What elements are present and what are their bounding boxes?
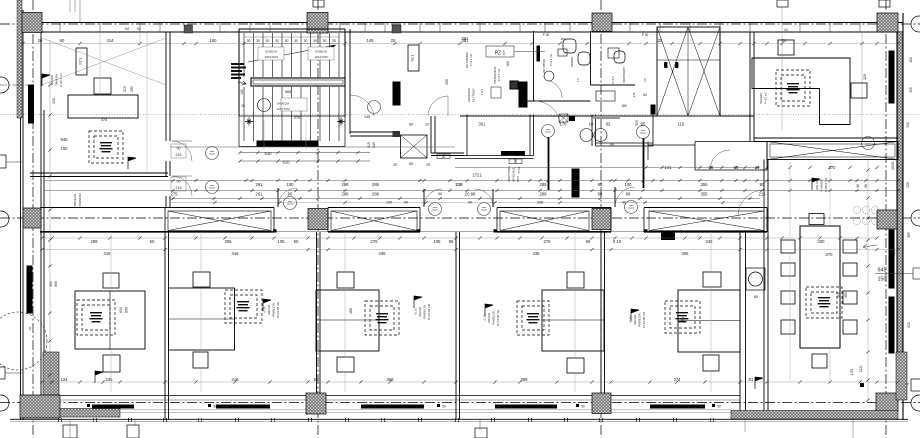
radiator window bar 4	[495, 405, 557, 409]
svg-text:220: 220	[906, 182, 910, 188]
desk office4	[542, 290, 604, 351]
svg-text:320: 320	[675, 62, 679, 68]
wc glyph block	[510, 81, 518, 89]
svg-text:96: 96	[610, 143, 614, 147]
glazed X panel 4	[649, 211, 764, 231]
grid bubble left y373 square	[0, 367, 5, 379]
svg-text:345: 345	[706, 239, 714, 244]
radiator window bar 2	[216, 405, 270, 409]
extension lines offices	[80, 8, 862, 392]
svg-text:30: 30	[323, 39, 327, 43]
svg-text:04: 04	[784, 28, 788, 32]
office wall 1|2	[165, 232, 169, 419]
svg-text:945: 945	[878, 268, 887, 274]
svg-text:100: 100	[287, 182, 295, 187]
svg-text:116: 116	[678, 122, 685, 127]
svg-text:416: 416	[232, 377, 240, 382]
room A walls	[350, 29, 464, 156]
radiator window bar 1	[92, 405, 134, 409]
svg-text:365: 365	[907, 232, 911, 238]
left room bottom wall	[30, 173, 168, 177]
top exterior wall	[18, 23, 903, 33]
wc black post 2	[651, 105, 655, 114]
glazed X panel 2	[331, 211, 417, 231]
svg-text:30: 30	[313, 39, 317, 43]
svg-text:10X17CM: 10X17CM	[314, 55, 328, 59]
svg-text:90: 90	[288, 192, 293, 197]
svg-text:P=21 m2: P=21 m2	[764, 92, 768, 104]
dashed circle grid markers	[854, 207, 879, 225]
conference chairs left	[781, 240, 795, 253]
svg-text:SANITARIAT: SANITARIAT	[622, 67, 626, 83]
svg-text:PAWILON: PAWILON	[73, 194, 77, 207]
wc toilet 3	[614, 51, 625, 63]
svg-text:419: 419	[104, 251, 112, 256]
door jamb blocks	[273, 229, 277, 232]
gray bar room3	[593, 116, 620, 119]
grid axis vertical x33	[32, 0, 34, 438]
radiator window bar 3	[361, 405, 424, 409]
svg-text:P: P	[907, 382, 909, 386]
grid axis horizontal top y24	[0, 23, 920, 25]
chair office3 top	[337, 272, 354, 288]
svg-text:60: 60	[150, 239, 155, 244]
svg-text:515: 515	[367, 142, 371, 148]
svg-text:60: 60	[598, 192, 603, 197]
bottom facade mullion line	[20, 399, 740, 401]
stair circle symbol	[258, 99, 271, 112]
left facade hatch strip	[17, 0, 22, 118]
wc circle fixture	[544, 71, 554, 81]
svg-text:100: 100	[909, 57, 913, 63]
svg-text:365: 365	[49, 281, 53, 287]
door leaf post 2	[643, 138, 645, 188]
ceiling dashed box office1	[77, 300, 115, 335]
svg-text:30: 30	[266, 39, 270, 43]
column mid left	[23, 208, 41, 228]
radiator right wall top	[889, 51, 894, 103]
svg-text:215: 215	[632, 92, 636, 97]
left room construction X lines	[42, 38, 166, 85]
bottom outer sill line	[10, 418, 908, 420]
svg-text:P=4,5: P=4,5	[611, 76, 615, 84]
void room X walls	[657, 27, 720, 116]
svg-text:URZĄD: URZĄD	[487, 312, 491, 323]
svg-text:110: 110	[858, 365, 863, 372]
bottom marker box 2	[475, 428, 487, 438]
stair landing slab	[239, 116, 345, 147]
svg-text:+5,10: +5,10	[629, 316, 633, 324]
svg-text:P=14,08 m2: P=14,08 m2	[642, 312, 646, 329]
svg-text:150: 150	[664, 62, 668, 68]
grid axis horizontal middle y218	[0, 217, 920, 219]
svg-text:610: 610	[283, 160, 291, 165]
svg-text:391: 391	[462, 36, 470, 41]
svg-text:386: 386	[387, 377, 395, 382]
svg-text:64: 64	[137, 27, 141, 31]
door gap arcs office3	[424, 189, 442, 207]
svg-text:30: 30	[285, 39, 289, 43]
svg-text:124: 124	[61, 377, 69, 382]
conference ceiling dashed box	[806, 287, 842, 318]
column top B	[307, 13, 328, 34]
door leaf post 1	[548, 137, 550, 190]
wc shaft black	[519, 82, 527, 107]
conference top glazed X wall	[767, 142, 898, 160]
svg-text:439: 439	[533, 251, 541, 256]
desk office5	[678, 290, 740, 352]
svg-text:416: 416	[232, 251, 240, 256]
column mid C	[592, 209, 611, 230]
svg-text:480: 480	[349, 308, 353, 314]
corridor room 2 walls	[592, 115, 653, 147]
svg-text:25: 25	[658, 38, 663, 43]
left room dashed ceiling box	[89, 131, 123, 163]
wc door arcs	[535, 101, 560, 124]
svg-text:141: 141	[665, 165, 673, 170]
svg-text:290: 290	[130, 86, 134, 92]
column bottom C	[592, 393, 611, 414]
left exterior wall	[21, 10, 45, 420]
terrace edge line	[20, 410, 898, 413]
svg-text:60: 60	[754, 295, 758, 299]
svg-text:WC MĘSKI: WC MĘSKI	[542, 59, 546, 73]
svg-text:276: 276	[371, 239, 379, 244]
svg-text:474: 474	[101, 118, 107, 122]
svg-text:90: 90	[586, 239, 591, 244]
radiator right wall lower	[889, 297, 894, 353]
small boxes below wall	[437, 154, 443, 159]
plant niche square	[746, 268, 765, 290]
svg-text:25: 25	[241, 104, 245, 108]
svg-text:10X17CM: 10X17CM	[276, 107, 290, 111]
svg-text:180: 180	[560, 37, 565, 41]
svg-text:365: 365	[837, 292, 841, 298]
office5 wardrobe black	[661, 231, 675, 240]
bottom marker box 1	[127, 425, 139, 438]
glazed X panel 1	[168, 211, 271, 231]
left room radiator	[29, 85, 34, 123]
right exterior wall	[897, 13, 903, 420]
corridor room1 black bench	[501, 151, 525, 156]
svg-text:30: 30	[256, 39, 260, 43]
ceiling dashed box office2	[225, 290, 262, 323]
wc cluster walls	[460, 31, 657, 116]
svg-text:TAWERN: TAWERN	[55, 74, 59, 86]
grid bubble top squares	[313, 0, 324, 7]
svg-text:PAWILON: PAWILON	[423, 305, 427, 319]
room A dark post	[393, 131, 401, 137]
svg-text:165: 165	[506, 61, 510, 67]
corner hatch bottom-left L	[20, 395, 60, 418]
corner hatch bottom-left strip	[60, 409, 120, 418]
room A NZ1 box	[408, 45, 419, 71]
svg-text:150: 150	[61, 146, 69, 151]
chair office5 top	[703, 272, 721, 287]
grid axis vertical x318	[317, 0, 319, 438]
stair arrow line	[248, 45, 336, 62]
svg-text:9X30CM: 9X30CM	[277, 102, 289, 106]
chair office1 bottom	[103, 355, 120, 372]
svg-text:30: 30	[247, 39, 251, 43]
svg-text:215: 215	[759, 192, 767, 197]
svg-text:NZ 1: NZ 1	[79, 57, 83, 64]
grid bubble right y385 square	[911, 379, 920, 391]
svg-text:289: 289	[540, 182, 548, 187]
corridor closet room	[695, 142, 767, 171]
svg-text:105: 105	[386, 201, 392, 205]
right room chair right	[851, 83, 867, 98]
svg-text:90: 90	[760, 182, 765, 187]
svg-text:03 09: 03 09	[892, 248, 896, 256]
svg-text:90: 90	[468, 201, 472, 205]
chair office1 top	[103, 273, 119, 288]
svg-text:64: 64	[125, 27, 129, 31]
bottom inner floor line	[20, 395, 740, 397]
svg-text:P=20,1 m2: P=20,1 m2	[59, 73, 63, 87]
facade post top 2	[392, 25, 401, 33]
ceiling dashed box office4	[517, 301, 549, 335]
svg-text:9X30CM: 9X30CM	[265, 50, 277, 54]
wc box	[608, 48, 619, 58]
svg-text:P=14,08 m2: P=14,08 m2	[496, 310, 500, 327]
svg-text:URZĄD: URZĄD	[267, 304, 271, 315]
svg-text:URZĄD: URZĄD	[50, 75, 54, 85]
svg-text:286: 286	[372, 182, 380, 187]
left corridor chains	[240, 153, 370, 162]
top box with X	[559, 114, 568, 122]
svg-text:270: 270	[294, 116, 300, 120]
svg-text:305: 305	[635, 120, 639, 126]
left lower wall hatch	[43, 352, 59, 396]
grid axis horizontal bottom y402.5	[0, 402, 920, 404]
svg-text:20: 20	[38, 38, 43, 43]
radiator office1 left wall	[27, 266, 32, 313]
grid bubble left y162 square	[0, 155, 6, 168]
svg-text:90: 90	[438, 192, 442, 196]
left room desk	[68, 95, 138, 118]
svg-text:P=14,08 m2: P=14,08 m2	[427, 304, 431, 321]
door gap arcs office2	[278, 188, 297, 207]
svg-text:150: 150	[878, 277, 887, 283]
wall end jambs	[165, 208, 767, 233]
threshold thin line	[274, 231, 644, 233]
svg-text:GRZEJNIK: GRZEJNIK	[467, 88, 471, 102]
left room door wall	[166, 32, 170, 208]
svg-text:288: 288	[537, 201, 543, 205]
extension line x862	[861, 32, 863, 141]
svg-text:545: 545	[372, 142, 376, 148]
corridor room 1 walls	[455, 115, 534, 159]
svg-text:+5,10: +5,10	[483, 314, 487, 322]
svg-text:306: 306	[225, 239, 233, 244]
corridor guide line 1	[170, 146, 455, 148]
svg-text:90: 90	[449, 239, 454, 244]
svg-text:10: 10	[425, 123, 429, 127]
svg-text:P 30: P 30	[543, 33, 550, 37]
svg-text:P=4,3 m2: P=4,3 m2	[549, 54, 553, 66]
svg-text:261: 261	[256, 192, 264, 197]
svg-text:25: 25	[393, 163, 397, 167]
svg-text:30: 30	[332, 39, 336, 43]
wc annex wall	[648, 142, 695, 161]
svg-text:90: 90	[626, 192, 631, 197]
svg-text:82: 82	[606, 122, 611, 127]
conference table	[800, 226, 840, 348]
wc toilet 2	[578, 52, 590, 65]
svg-text:30: 30	[304, 39, 308, 43]
wc black post 1	[537, 46, 540, 61]
svg-text:355: 355	[701, 182, 709, 187]
dim chain line mid	[455, 167, 760, 169]
office wall 2|3 grid B	[317, 232, 321, 393]
chair office4 top	[567, 272, 584, 288]
svg-text:URZĄD: URZĄD	[633, 314, 637, 325]
conference entry door arc	[738, 190, 764, 216]
svg-text:180: 180	[621, 104, 627, 108]
svg-text:90: 90	[177, 180, 181, 184]
corridor-office wall bottom thick line	[40, 231, 767, 233]
column mid B	[308, 209, 328, 230]
small black rect	[569, 116, 575, 121]
svg-text:320: 320	[818, 239, 826, 244]
right wall hatch strip	[898, 32, 903, 352]
svg-text:50: 50	[717, 405, 721, 409]
grid axis vertical x886	[885, 0, 887, 438]
svg-text:PAWILON: PAWILON	[272, 303, 276, 317]
room A door circle	[368, 101, 381, 114]
small box pair below wall	[509, 159, 515, 164]
door swing big dashed circle	[0, 312, 47, 370]
svg-text:9X30CM: 9X30CM	[315, 50, 327, 54]
office wall 4|5 grid C	[601, 232, 605, 393]
room right of void	[720, 27, 754, 116]
svg-text:145: 145	[364, 115, 370, 119]
svg-text:510: 510	[265, 151, 273, 156]
right room L desk	[752, 58, 850, 125]
svg-text:10: 10	[589, 122, 594, 127]
svg-text:145: 145	[367, 38, 375, 43]
column mid D right wall pier	[877, 210, 897, 229]
stair well walls	[239, 29, 345, 116]
svg-text:PAWILON: PAWILON	[638, 313, 642, 327]
svg-text:WYKŁADZ.: WYKŁADZ.	[512, 166, 516, 182]
svg-text:90: 90	[622, 201, 626, 205]
svg-text:04: 04	[782, 38, 787, 43]
svg-text:PCV: PCV	[516, 176, 520, 182]
svg-text:OŁ: OŁ	[28, 326, 32, 330]
svg-text:650: 650	[125, 307, 129, 313]
right room left wall	[750, 32, 754, 141]
grid bubble left y219	[0, 211, 9, 227]
office wall 3|4	[456, 232, 460, 419]
svg-text:80: 80	[409, 123, 413, 127]
chair office4 bottom	[567, 358, 584, 373]
svg-text:2,0: 2,0	[643, 78, 647, 82]
chair office3 bottom	[337, 357, 354, 372]
right room dashed box	[776, 70, 810, 106]
svg-text:261: 261	[256, 182, 264, 187]
svg-text:301: 301	[479, 122, 487, 127]
svg-text:50: 50	[314, 377, 319, 382]
svg-text:90: 90	[294, 239, 299, 244]
svg-text:180: 180	[210, 38, 218, 43]
svg-text:286: 286	[342, 192, 350, 197]
svg-text:10X17CM: 10X17CM	[264, 55, 278, 59]
svg-text:105: 105	[278, 239, 286, 244]
stair mid rail box	[251, 78, 345, 86]
terrace hatch band bottom-right	[731, 411, 898, 420]
svg-text:286: 286	[342, 182, 350, 187]
stair handrail bar	[257, 141, 318, 146]
svg-text:20 90: 20 90	[465, 192, 476, 197]
svg-text:125: 125	[849, 368, 854, 375]
svg-text:25: 25	[391, 38, 396, 43]
svg-text:100: 100	[625, 182, 633, 187]
svg-text:5 10: 5 10	[613, 239, 622, 244]
svg-text:1025: 1025	[891, 162, 895, 170]
svg-text:50: 50	[442, 405, 446, 409]
corner hatch bottom-right	[876, 393, 898, 412]
svg-text:210: 210	[456, 182, 464, 187]
grid axis dotted line y114.5	[0, 114, 920, 116]
vent shaft X box	[401, 135, 428, 158]
facade post top 1	[184, 25, 193, 33]
svg-text:50: 50	[213, 405, 217, 409]
chair office2 top	[193, 272, 210, 287]
wc door circles pair	[580, 129, 593, 142]
ceiling dashed box office3	[365, 301, 399, 335]
wc sink 1	[558, 49, 567, 56]
svg-text:610: 610	[907, 322, 911, 328]
svg-text:PZ 1: PZ 1	[495, 51, 506, 57]
svg-text:340: 340	[906, 122, 910, 128]
radiator window bar 5	[650, 405, 705, 409]
conference chair bottom	[812, 354, 827, 368]
svg-text:KABINA: KABINA	[570, 57, 574, 67]
svg-text:610: 610	[119, 307, 123, 313]
svg-text:286: 286	[372, 192, 380, 197]
svg-text:215: 215	[176, 186, 182, 190]
svg-text:565: 565	[285, 90, 291, 94]
svg-text:355: 355	[701, 192, 709, 197]
svg-text:945: 945	[61, 137, 69, 142]
svg-text:60: 60	[643, 93, 647, 97]
conference chairs right	[843, 240, 857, 253]
chair office2 bottom	[193, 352, 208, 368]
room A door arc	[428, 96, 448, 116]
grid bubble right y403	[911, 395, 920, 411]
svg-text:320: 320	[863, 74, 867, 80]
stair treads lower flight	[244, 87, 339, 141]
svg-text:370: 370	[826, 252, 834, 257]
right room bottom wall	[754, 138, 898, 142]
svg-text:P=58,0 m2: P=58,0 m2	[824, 177, 828, 192]
svg-text:275: 275	[171, 192, 179, 197]
svg-text:315: 315	[123, 86, 127, 92]
right room chair top	[778, 40, 794, 55]
wc vestibule door post	[572, 169, 579, 197]
svg-text:NZ 1: NZ 1	[411, 54, 415, 61]
wc counter	[596, 91, 615, 101]
corridor-office wall top line	[40, 207, 767, 209]
grid bubble right y218	[911, 210, 920, 226]
svg-text:P 30: P 30	[642, 33, 649, 37]
svg-text:50: 50	[581, 405, 585, 409]
terrace hatch right strip	[896, 352, 907, 400]
svg-text:235: 235	[106, 377, 114, 382]
desk office2	[169, 288, 235, 350]
